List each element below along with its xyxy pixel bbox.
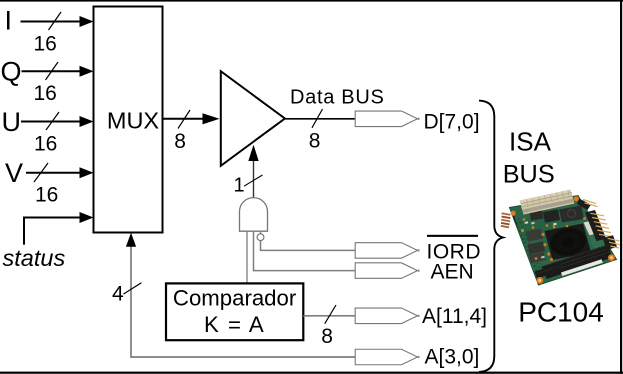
svg-text:16: 16 (34, 32, 57, 55)
left pin header sticking out (499, 212, 511, 228)
small chips left column (526, 229, 543, 242)
tiny light components (525, 221, 529, 224)
big BGA chip (545, 224, 592, 261)
small chips below beige (530, 210, 544, 221)
DSP chip C6 (559, 206, 584, 223)
frame border right (620, 0, 622, 374)
via holes along left edge (515, 219, 538, 272)
svg-text:8: 8 (309, 130, 321, 153)
wire U input line (21, 112, 94, 130)
wire Q input line (22, 62, 94, 80)
node ISA BUS label (503, 127, 555, 189)
svg-text:8: 8 (321, 325, 333, 348)
wire enable into buffer (244, 145, 263, 198)
bottom bus connector (black) (542, 245, 613, 280)
svg-text:1: 1 (234, 174, 245, 196)
orange capacitors (521, 217, 586, 261)
svg-text:MUX: MUX (107, 108, 160, 134)
connector D[7,0] (355, 111, 419, 127)
connector AEN (355, 263, 419, 279)
svg-text:status: status (3, 245, 66, 271)
svg-text:Q: Q (1, 57, 22, 87)
svg-text:16: 16 (34, 133, 57, 156)
darker pcb patches (515, 216, 556, 244)
wire gate input from IORD (261, 240, 356, 250)
mux U1 (94, 7, 163, 233)
svg-text:4: 4 (112, 283, 124, 306)
wire I input line (21, 12, 94, 30)
wire gate input from comparator (246, 231, 248, 283)
node IORD label (active low) (427, 235, 482, 264)
wire Data BUS (285, 109, 356, 128)
svg-text:Data BUS: Data BUS (290, 87, 385, 109)
svg-text:D[7,0]: D[7,0] (424, 110, 480, 133)
wire MUX output to buffer (163, 110, 220, 129)
svg-text:16: 16 (34, 82, 57, 105)
svg-text:8: 8 (174, 130, 186, 153)
wire A[3,0] to MUX select (123, 233, 355, 357)
svg-text:A[3,0]: A[3,0] (425, 346, 480, 369)
svg-text:AEN: AEN (431, 260, 474, 283)
svg-text:I: I (5, 6, 13, 36)
wire V input line (26, 163, 94, 182)
right edge connector upper (577, 199, 598, 211)
frame border top (0, 0, 623, 2)
wire comparator to A[11,4] (303, 305, 355, 324)
svg-text:V: V (5, 158, 23, 188)
buffer tri-state U2 (221, 71, 285, 166)
comparator box (166, 283, 303, 340)
PCB substrate (510, 196, 617, 286)
wire status input line (24, 212, 94, 245)
PC104 board photo (499, 190, 621, 286)
right edge connector lower (603, 235, 622, 250)
top stackthrough connector (beige) (520, 190, 575, 215)
svg-text:PC104: PC104 (518, 297, 604, 328)
corner pads (orange) (511, 211, 516, 216)
svg-text:Comparador: Comparador (173, 285, 297, 310)
white flex connector (584, 221, 596, 235)
ISA bus brace (479, 101, 503, 372)
and-gate U3 (240, 198, 268, 232)
svg-text:U: U (2, 107, 22, 137)
inverter bubble on IORD input (257, 231, 264, 240)
connector A[11,4] (355, 308, 419, 324)
right edge connector middle (585, 210, 613, 241)
connector A[3,0] (355, 349, 419, 365)
frame border bottom (0, 372, 623, 374)
connector IORD (355, 243, 419, 259)
left black connector block (506, 213, 518, 228)
svg-text:16: 16 (35, 184, 58, 207)
bottom-left connector (535, 263, 563, 278)
wire gate input from AEN (254, 231, 356, 270)
svg-text:ISA: ISA (509, 127, 552, 157)
svg-text:A[11,4]: A[11,4] (422, 305, 487, 328)
svg-text:K = A: K = A (204, 312, 265, 337)
svg-text:BUS: BUS (503, 161, 555, 189)
